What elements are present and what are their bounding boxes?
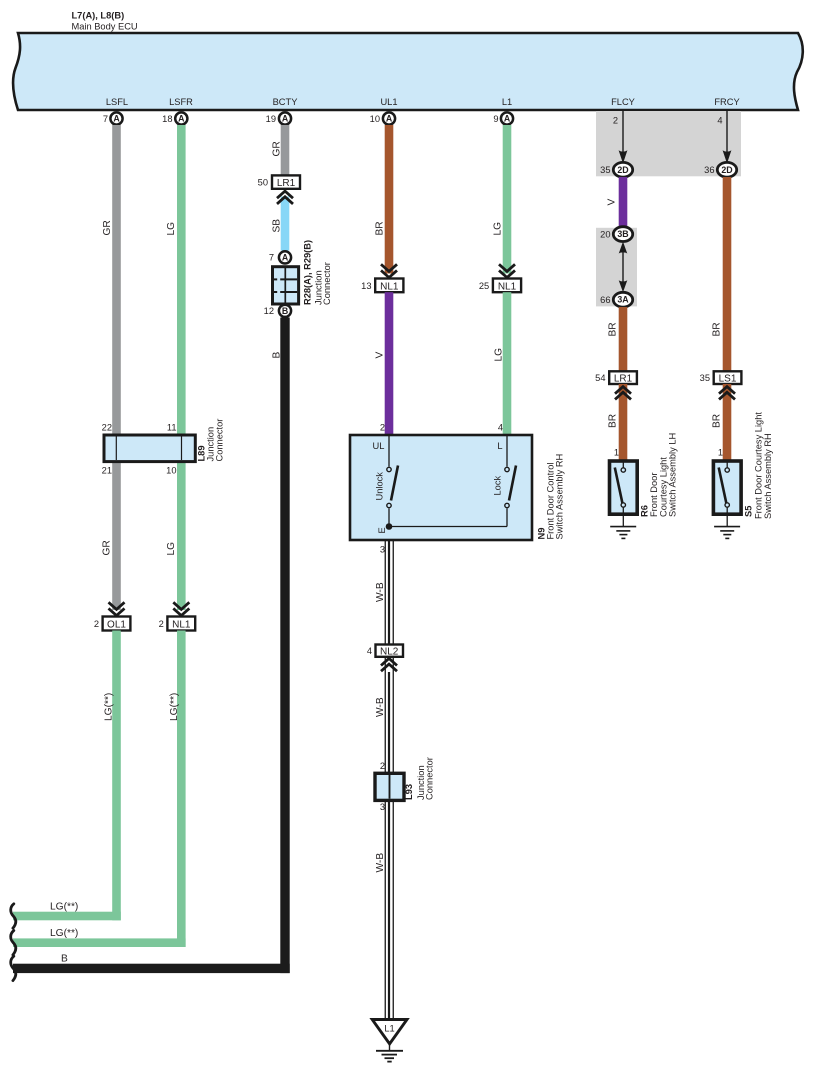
- svg-text:R28(A), R29(B): R28(A), R29(B): [303, 240, 313, 305]
- wire L1 LG green lower: [503, 292, 512, 435]
- svg-text:35: 35: [600, 165, 610, 175]
- svg-text:A: A: [282, 253, 289, 263]
- svg-text:2: 2: [159, 619, 164, 629]
- chevron arrows out of NL2: [381, 658, 397, 671]
- N9 Lock switch: [505, 466, 516, 508]
- chevron arrows into NL1 left: [173, 602, 189, 615]
- svg-text:NL1: NL1: [498, 281, 517, 292]
- terminal FRCY: [714, 97, 739, 107]
- svg-text:4: 4: [498, 423, 503, 433]
- break squiggle wire2: [11, 931, 16, 955]
- svg-text:2: 2: [613, 116, 618, 126]
- svg-text:NL1: NL1: [172, 620, 191, 631]
- svg-text:Lock: Lock: [493, 476, 503, 496]
- connector OL1 pin 2: [94, 617, 131, 631]
- break squiggle wire1: [11, 904, 16, 928]
- svg-text:S5: S5: [744, 506, 754, 517]
- terminal LSFL pin 7 (A): [103, 97, 128, 125]
- svg-text:SB: SB: [272, 219, 283, 233]
- connector oval 2D pin 35: [600, 162, 633, 177]
- svg-text:2: 2: [380, 761, 385, 771]
- svg-text:20: 20: [600, 229, 610, 239]
- wire BCTY SB sky blue: [281, 197, 290, 251]
- R6 pin 1: [614, 448, 619, 458]
- svg-text:BR: BR: [375, 221, 386, 235]
- wire W-B segment 2: [385, 657, 394, 774]
- terminal UL1 pin 10 (A): [370, 97, 398, 125]
- N9 lead from pin2: [388, 436, 390, 467]
- svg-text:13: 13: [361, 281, 371, 291]
- svg-text:GR: GR: [102, 540, 113, 555]
- label GR lower: [102, 540, 113, 555]
- chevron arrows into NL1 center: [381, 264, 397, 277]
- shield shade region lower: [596, 228, 637, 307]
- svg-text:12: 12: [264, 306, 274, 316]
- svg-text:35: 35: [700, 373, 710, 383]
- label N9 Front Door Control Switch Assembly RH: [537, 454, 565, 540]
- svg-text:LG: LG: [166, 222, 177, 236]
- svg-text:BCTY: BCTY: [273, 97, 298, 107]
- chevron arrows out of LS1: [719, 387, 735, 400]
- svg-text:Unlock: Unlock: [375, 472, 385, 501]
- connector oval 2D pin 36: [704, 162, 737, 177]
- connector LS1 pin 35: [700, 371, 742, 384]
- Main Body ECU box U-L7/L8: [13, 33, 803, 110]
- switch R6 Front Door Courtesy Light Switch Assembly LH: [610, 461, 638, 514]
- chevron arrows into NL1 right: [499, 264, 515, 277]
- label E: [377, 527, 387, 533]
- label B horizontal: [61, 954, 68, 965]
- svg-text:L1: L1: [384, 1024, 394, 1034]
- ground symbol under S5: [714, 515, 740, 539]
- wire B black down with elbow left: [13, 318, 290, 974]
- label L93 Junction Connector: [404, 757, 435, 800]
- svg-text:L1: L1: [502, 97, 512, 107]
- svg-text:11: 11: [167, 423, 177, 433]
- wire UL1 BR brown: [385, 125, 394, 274]
- terminal BCTY pin 19 (A): [266, 97, 298, 125]
- connector NL2 pin 4: [367, 645, 403, 658]
- terminal LSFR pin 18 (A): [162, 97, 193, 125]
- svg-text:B: B: [282, 306, 288, 316]
- connector NL1 pin 13: [361, 279, 403, 293]
- svg-text:A: A: [504, 114, 511, 124]
- svg-text:OL1: OL1: [107, 620, 126, 631]
- svg-text:2: 2: [380, 423, 385, 433]
- svg-text:Connector: Connector: [215, 419, 225, 462]
- svg-text:LSFR: LSFR: [169, 97, 193, 107]
- switch S5 Front Door Courtesy Light Switch Assembly RH: [713, 461, 741, 514]
- connector LR1 pin 54: [595, 371, 637, 384]
- N9 L terminal label: [497, 441, 502, 451]
- label R6 Front Door Courtesy Light Switch Assembly LH: [640, 433, 678, 517]
- svg-text:Switch Assembly RH: Switch Assembly RH: [555, 454, 565, 540]
- junction connector R28(A) R29(B): [273, 267, 299, 304]
- svg-text:3: 3: [380, 802, 385, 812]
- svg-text:W-B: W-B: [375, 582, 386, 602]
- label BR at FLCY upper: [608, 322, 619, 336]
- svg-text:3A: 3A: [617, 295, 629, 305]
- svg-text:B: B: [272, 352, 283, 359]
- wire LSFR LG green vertical: [177, 125, 186, 610]
- svg-text:NL1: NL1: [380, 281, 399, 292]
- wire FRCY BR brown long: [723, 177, 732, 371]
- label BR at FRCY upper: [712, 322, 723, 336]
- svg-text:LG(**): LG(**): [169, 693, 180, 721]
- chevron arrows into OL1: [109, 602, 125, 615]
- wire FRCY BR brown lower: [723, 384, 732, 461]
- svg-text:2: 2: [94, 619, 99, 629]
- svg-text:10: 10: [370, 114, 380, 124]
- L93 pin 2: [380, 761, 385, 771]
- switch N9 Front Door Control Switch Assembly RH: [350, 435, 532, 540]
- svg-text:NL2: NL2: [380, 647, 399, 658]
- svg-text:3: 3: [380, 545, 385, 555]
- svg-text:1: 1: [614, 448, 619, 458]
- svg-text:L: L: [497, 441, 502, 451]
- svg-text:A: A: [386, 114, 393, 124]
- label LG at L1: [493, 222, 504, 236]
- wire W-B segment 1: [385, 540, 394, 646]
- svg-text:FLCY: FLCY: [611, 97, 635, 107]
- svg-text:10: 10: [166, 466, 176, 476]
- svg-text:L93: L93: [404, 784, 414, 800]
- N9 pin 3: [380, 545, 385, 555]
- connector oval 3B pin 20: [600, 227, 633, 242]
- svg-text:UL: UL: [373, 441, 385, 451]
- svg-text:3B: 3B: [617, 229, 628, 239]
- svg-text:Front Door Courtesy Light: Front Door Courtesy Light: [754, 412, 764, 519]
- svg-text:L7(A), L8(B): L7(A), L8(B): [72, 11, 125, 21]
- svg-text:22: 22: [102, 423, 112, 433]
- linking arrow between 3B and 3A: [619, 242, 628, 293]
- FRCY lead line with arrow: [717, 111, 731, 164]
- node (B) pin 12 of R29: [264, 305, 291, 317]
- wire NL1 LG green down with elbow left: [13, 631, 186, 948]
- svg-text:Switch Assembly LH: Switch Assembly LH: [668, 433, 678, 517]
- L89 pin 21: [102, 466, 112, 476]
- svg-text:FRCY: FRCY: [714, 97, 739, 107]
- svg-text:LG(**): LG(**): [50, 902, 78, 913]
- svg-text:Switch Assembly RH: Switch Assembly RH: [763, 433, 773, 519]
- label W-B first: [375, 582, 386, 602]
- junction connector L93: [375, 773, 404, 800]
- label LG lower at L1: [494, 348, 505, 362]
- label R28(A), R29(B) Junction Connector: [303, 240, 333, 305]
- N9 UL terminal label: [373, 441, 385, 451]
- svg-text:1: 1: [718, 448, 723, 458]
- connector oval 3A pin 66: [600, 292, 633, 307]
- svg-text:66: 66: [600, 295, 610, 305]
- svg-text:LG(**): LG(**): [50, 928, 78, 939]
- connector LR1 pin 50: [258, 175, 300, 189]
- svg-text:36: 36: [704, 165, 714, 175]
- svg-text:LG(**): LG(**): [104, 693, 115, 721]
- wire FLCY BR brown upper: [619, 307, 628, 371]
- svg-text:UL1: UL1: [380, 97, 397, 107]
- label GR: [102, 220, 113, 235]
- label BR at FRCY lower: [712, 414, 723, 428]
- label SB: [272, 219, 283, 233]
- svg-text:GR: GR: [272, 141, 283, 156]
- svg-text:BR: BR: [712, 322, 723, 336]
- svg-text:50: 50: [258, 178, 268, 188]
- wire FLCY BR brown lower: [619, 384, 628, 461]
- label B rotated: [272, 352, 283, 359]
- svg-text:BR: BR: [712, 414, 723, 428]
- label L89 Junction Connector: [197, 419, 225, 462]
- svg-text:Connector: Connector: [322, 262, 332, 305]
- label S5 Front Door Courtesy Light Switch Assembly RH: [744, 412, 774, 519]
- svg-text:LR1: LR1: [277, 178, 296, 189]
- connector NL1 pin 25: [479, 279, 521, 293]
- svg-text:A: A: [178, 114, 185, 124]
- break squiggle wire3: [11, 956, 16, 980]
- svg-text:18: 18: [162, 114, 172, 124]
- wire L1 LG green upper: [503, 125, 512, 274]
- svg-text:LS1: LS1: [719, 374, 737, 385]
- svg-text:7: 7: [269, 253, 274, 263]
- svg-text:A: A: [113, 114, 120, 124]
- wire UL1 V violet: [385, 292, 394, 435]
- node (A) pin 7 of R28: [269, 251, 291, 263]
- svg-text:4: 4: [717, 116, 722, 126]
- svg-text:4: 4: [367, 646, 372, 656]
- label L7(A), L8(B) Main Body ECU: [72, 11, 138, 32]
- svg-text:BR: BR: [608, 414, 619, 428]
- svg-text:A: A: [282, 114, 289, 124]
- wire LSFL GR gray vertical: [112, 125, 121, 610]
- label W-B second: [375, 697, 386, 717]
- label V: [375, 352, 386, 359]
- terminal L1 pin 9 (A): [493, 97, 513, 125]
- svg-text:54: 54: [595, 373, 605, 383]
- svg-text:2D: 2D: [721, 165, 732, 175]
- svg-text:W-B: W-B: [375, 697, 386, 717]
- svg-text:LR1: LR1: [614, 374, 633, 385]
- svg-text:2D: 2D: [617, 165, 628, 175]
- svg-text:GR: GR: [102, 220, 113, 235]
- wire W-B segment 3: [385, 800, 394, 1020]
- wire BCTY GR gray short: [281, 125, 290, 176]
- svg-text:W-B: W-B: [375, 853, 386, 873]
- wire FLCY V violet: [619, 177, 628, 228]
- svg-text:21: 21: [102, 466, 112, 476]
- S5 pin 1: [718, 448, 723, 458]
- svg-text:9: 9: [493, 114, 498, 124]
- chevron arrows out of LR1: [277, 191, 293, 204]
- svg-text:V: V: [607, 199, 618, 206]
- L89 pin 22: [102, 423, 112, 433]
- svg-text:R6: R6: [640, 505, 650, 517]
- chevron arrows out of LR1 right: [615, 387, 631, 400]
- svg-text:Main Body ECU: Main Body ECU: [72, 22, 138, 32]
- N9 pin 2: [380, 423, 385, 433]
- label LG(**) horizontal second: [50, 928, 78, 939]
- svg-text:BR: BR: [608, 322, 619, 336]
- terminal FLCY: [611, 97, 635, 107]
- label BR at FLCY lower: [608, 414, 619, 428]
- label LG(**) rotated first: [104, 693, 115, 721]
- label LG: [166, 222, 177, 236]
- N9 E bus wires: [389, 508, 507, 526]
- svg-text:LG: LG: [493, 222, 504, 236]
- label W-B third: [375, 853, 386, 873]
- svg-text:LG: LG: [166, 542, 177, 556]
- FLCY lead line with arrow: [613, 111, 628, 164]
- svg-text:25: 25: [479, 281, 489, 291]
- N9 Unlock switch: [387, 466, 398, 508]
- L89 pin 11: [167, 423, 177, 433]
- L89 pin 10: [166, 466, 176, 476]
- svg-text:19: 19: [266, 114, 276, 124]
- svg-text:E: E: [377, 527, 387, 533]
- label GR at BCTY: [272, 141, 283, 156]
- ground symbol under L1: [376, 1044, 403, 1062]
- connector NL1 left pin 2: [159, 617, 196, 631]
- N9 lead from pin4: [506, 436, 508, 467]
- N9 E junction dot: [386, 523, 393, 530]
- ground triangle L1: [372, 1020, 407, 1044]
- svg-text:V: V: [375, 352, 386, 359]
- wire OL1 LG green down with elbow left: [13, 631, 121, 921]
- label BR at UL1: [375, 221, 386, 235]
- label V at FLCY: [607, 199, 618, 206]
- svg-text:Connector: Connector: [425, 757, 435, 800]
- label LG(**) horizontal first: [50, 902, 78, 913]
- N9 pin 4: [498, 423, 503, 433]
- svg-text:7: 7: [103, 114, 108, 124]
- svg-text:LSFL: LSFL: [106, 97, 128, 107]
- label LG lower: [166, 542, 177, 556]
- label Unlock: [375, 472, 385, 501]
- junction connector L89: [104, 435, 195, 462]
- svg-text:B: B: [61, 954, 68, 965]
- label LG(**) rotated second: [169, 693, 180, 721]
- label Lock: [493, 476, 503, 496]
- svg-text:LG: LG: [494, 348, 505, 362]
- L93 pin 3: [380, 802, 385, 812]
- ground symbol under R6: [610, 515, 636, 539]
- shield shade region upper: [596, 111, 741, 176]
